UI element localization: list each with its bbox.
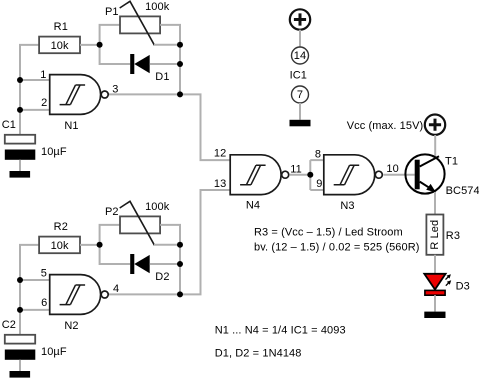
wire C2 to ground: [19, 360, 21, 371]
svg-text:N1: N1: [64, 120, 78, 132]
wire left rail oscillator 1: [20, 45, 39, 135]
potentiometer P1 100k: [105, 1, 170, 45]
wire N2 output to N4 pin 13: [107, 190, 230, 294]
node junction dot pin6 rail: [17, 307, 23, 313]
power plus Vcc: [425, 115, 445, 135]
svg-text:N2: N2: [64, 320, 78, 332]
svg-text:P2: P2: [105, 206, 119, 218]
svg-text:bv. (12 – 1.5) / 0.02 = 525 (5: bv. (12 – 1.5) / 0.02 = 525 (560R): [254, 242, 420, 254]
wire IC1 plus to pin 14: [299, 30, 301, 47]
capacitor C2 10uF: [2, 319, 67, 360]
NAND schmitt-trigger gate N2 (1/4 4093): [41, 268, 119, 332]
svg-text:3: 3: [112, 84, 118, 96]
svg-text:N1 ... N4 = 1/4 IC1 = 4093: N1 ... N4 = 1/4 IC1 = 4093: [215, 325, 346, 337]
svg-text:R1: R1: [54, 21, 68, 33]
wire R3 to D3: [434, 255, 436, 274]
node junction dot R2/P2/D2: [97, 242, 103, 248]
svg-text:100k: 100k: [145, 1, 170, 13]
wire C1 to ground: [19, 160, 21, 171]
ground below C2: [10, 371, 31, 378]
svg-text:R3 = (Vcc – 1.5) / Led Stroom: R3 = (Vcc – 1.5) / Led Stroom: [254, 227, 403, 239]
node dot D1 right column: [177, 61, 183, 67]
power plus IC1 supply: [290, 9, 310, 29]
diode D2: [130, 254, 169, 283]
wire N3 output pin 10 to T1 base: [383, 174, 414, 176]
svg-text:8: 8: [315, 149, 321, 161]
ground below D3: [424, 312, 445, 318]
wire N1 output to N4 pin 12: [107, 94, 230, 160]
svg-text:13: 13: [214, 178, 226, 190]
svg-text:1: 1: [40, 69, 46, 81]
svg-text:10k: 10k: [51, 40, 69, 52]
svg-text:10: 10: [386, 163, 398, 175]
node dot on N1 output line: [177, 91, 183, 97]
svg-text:2: 2: [41, 97, 47, 109]
NAND schmitt-trigger gate N1 (1/4 4093): [40, 69, 118, 132]
svg-text:P1: P1: [105, 6, 119, 18]
ground below C1: [10, 171, 31, 178]
wire P2 right terminal down: [160, 225, 180, 245]
wire P1 right terminal down: [160, 25, 180, 45]
svg-text:D2: D2: [155, 271, 169, 283]
wire up to P2 left terminal: [100, 225, 120, 245]
wire column to output line 2: [179, 264, 181, 294]
svg-text:100k: 100k: [145, 201, 170, 213]
wire pin 8 stub: [310, 159, 324, 161]
wire pin6 stub: [20, 309, 50, 311]
wire column segment: [179, 45, 181, 64]
diode D1: [130, 54, 169, 83]
svg-text:D1: D1: [155, 71, 169, 83]
wire down to D1 left terminal: [100, 45, 131, 64]
wire column to output line: [179, 64, 181, 94]
LED D3: [424, 274, 470, 295]
wire pin 9 stub: [310, 189, 324, 191]
resistor R3 (R Led): [426, 215, 460, 255]
svg-text:C1: C1: [2, 119, 16, 131]
resistor R2: [39, 221, 80, 253]
node dot pin 11 junction: [307, 172, 313, 178]
wire N4 output pin 11: [290, 174, 311, 176]
wire R1 right: [80, 44, 100, 46]
svg-text:5: 5: [41, 268, 47, 280]
svg-text:10k: 10k: [51, 240, 69, 252]
wire P2 wiper to right terminal: [154, 244, 180, 246]
potentiometer P2 100k: [105, 201, 170, 245]
wire vertical join to pins 8 and 9: [309, 160, 311, 190]
node dot on N2 output line: [177, 291, 183, 297]
svg-text:C2: C2: [2, 319, 16, 331]
wire up to P1 left terminal: [100, 25, 120, 45]
NAND schmitt-trigger gate N4 (1/4 4093): [214, 148, 302, 212]
wire left rail oscillator 2: [20, 245, 39, 335]
pin 7 circle: [292, 86, 309, 103]
ground IC1 pin 7: [290, 120, 311, 127]
wire D2 right: [150, 263, 180, 265]
wire down to D2 left terminal: [100, 245, 131, 264]
NAND schmitt-trigger gate N3 (1/4 4093): [315, 149, 399, 213]
wire P1 wiper to right terminal: [154, 44, 180, 46]
node dot P2 right column: [177, 242, 183, 248]
svg-text:D1, D2 = 1N4148: D1, D2 = 1N4148: [215, 348, 302, 360]
wire T1 emitter to R3: [434, 192, 436, 215]
svg-text:Vcc (max. 15V): Vcc (max. 15V): [347, 120, 424, 132]
svg-text:R2: R2: [54, 221, 68, 233]
svg-text:4: 4: [113, 283, 119, 295]
capacitor C1 10uF: [2, 119, 67, 160]
pin 14 circle: [292, 47, 309, 64]
svg-text:10µF: 10µF: [41, 346, 67, 358]
wire pin 7 to ground: [299, 103, 301, 120]
svg-text:R3: R3: [446, 230, 460, 242]
wire R2 right: [80, 244, 100, 246]
node dot D2 right column: [177, 261, 183, 267]
svg-text:IC1: IC1: [290, 70, 307, 82]
wire pin2 stub: [20, 109, 50, 111]
transistor T1 BC574: [405, 154, 479, 197]
svg-text:N4: N4: [246, 200, 260, 212]
svg-text:7: 7: [297, 89, 303, 101]
node dot P1 right column: [177, 42, 183, 48]
wire column segment 2: [179, 245, 181, 264]
svg-text:D3: D3: [456, 281, 470, 293]
wire pin1 stub: [20, 79, 50, 81]
node junction dot R1/P1/D1: [97, 42, 103, 48]
svg-text:BC574: BC574: [446, 185, 479, 197]
wire Vcc to T1 collector: [434, 135, 436, 158]
svg-text:T1: T1: [445, 155, 458, 167]
node junction dot pin5 rail: [17, 277, 23, 283]
svg-text:N3: N3: [340, 200, 354, 212]
wire D1 right: [150, 63, 180, 65]
svg-text:14: 14: [294, 50, 306, 62]
wire D3 to ground: [434, 295, 436, 311]
svg-text:6: 6: [41, 297, 47, 309]
svg-text:10µF: 10µF: [41, 146, 67, 158]
resistor R1: [39, 21, 80, 53]
wire pin5 stub: [20, 279, 50, 281]
node junction dot pin1 rail: [17, 77, 23, 83]
node junction dot pin2 rail: [17, 107, 23, 113]
svg-text:R Led: R Led: [429, 220, 441, 250]
svg-text:9: 9: [316, 178, 322, 190]
svg-text:12: 12: [214, 148, 226, 160]
